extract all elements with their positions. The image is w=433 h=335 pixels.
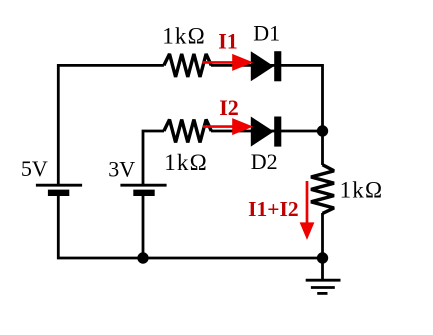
- wire R3 bottom to ground symbol: [321, 213, 324, 280]
- wire branch2 left corner to 3V battery top: [143, 131, 164, 184]
- battery 5V negative plate: [48, 190, 69, 196]
- svg-text:D2: D2: [251, 149, 278, 174]
- diode D2 cathode bar: [274, 117, 281, 147]
- junction node right rail to ground rail: [317, 252, 328, 263]
- resistor R2 1k ohm middle branch: [164, 120, 211, 143]
- resistor R1 1k ohm top branch: [164, 54, 211, 77]
- wire R2 right through D2 to right rail: [211, 130, 323, 133]
- svg-text:1kΩ: 1kΩ: [340, 178, 384, 203]
- resistor R3 1k ohm right vertical: [311, 165, 334, 214]
- current arrow I1+I2 head: [300, 222, 315, 240]
- current arrow I1 shaft: [202, 61, 235, 64]
- current arrow I1+I2 shaft: [306, 181, 309, 225]
- current arrow I1 head: [232, 54, 253, 71]
- svg-text:I2: I2: [219, 95, 239, 120]
- ground symbol bar 3: [317, 292, 327, 295]
- diode D1 cathode bar: [274, 51, 281, 81]
- diode D1 triangle: [251, 51, 274, 81]
- svg-text:D1: D1: [253, 21, 280, 46]
- battery 3V positive plate: [120, 184, 166, 187]
- wire R1 right through D1 to right rail down to R3: [211, 65, 323, 165]
- junction node 3V battery to ground rail: [137, 252, 148, 263]
- svg-text:I1: I1: [218, 29, 238, 54]
- svg-text:1kΩ: 1kΩ: [164, 150, 208, 175]
- ground symbol bar 2: [311, 286, 335, 289]
- wire 3V battery bottom to ground rail: [142, 196, 145, 258]
- wire 5V battery bottom to ground rail: [58, 196, 322, 258]
- diode D2 triangle: [251, 117, 274, 147]
- svg-text:5V: 5V: [21, 156, 48, 181]
- ground symbol bar 1: [306, 279, 341, 282]
- current arrow I2 head: [232, 118, 253, 135]
- junction node at D2 output on right rail: [317, 125, 328, 136]
- svg-text:1kΩ: 1kΩ: [162, 23, 206, 48]
- svg-text:3V: 3V: [108, 156, 135, 181]
- battery 5V positive plate: [36, 184, 82, 187]
- svg-text:I1+I2: I1+I2: [248, 197, 299, 221]
- wire top-left loop from R1 left to 5V battery top: [58, 65, 164, 184]
- current arrow I2 shaft: [203, 125, 235, 128]
- battery 3V negative plate: [133, 190, 154, 196]
